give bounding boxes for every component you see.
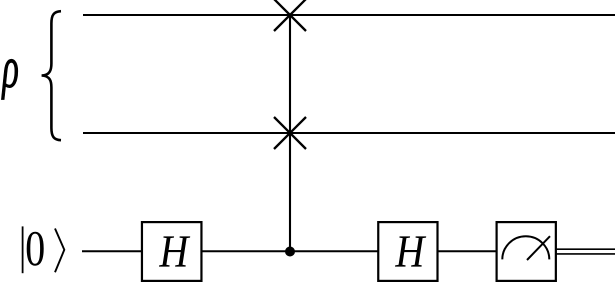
label rho <box>1 59 17 99</box>
H gate 2 box <box>378 222 437 281</box>
swap cross top <box>274 0 306 31</box>
wire qubit 3 segment c <box>438 250 497 252</box>
meter arc <box>502 236 549 259</box>
meter box <box>497 222 556 281</box>
wire qubit 1 <box>83 14 615 16</box>
control dot <box>285 247 295 257</box>
wire qubit 2 <box>83 132 615 134</box>
brace <box>42 11 61 140</box>
H gate 2 letter <box>395 236 426 266</box>
swap cross bottom <box>274 117 306 149</box>
meter needle <box>527 236 550 260</box>
vertical control line <box>289 15 291 252</box>
H gate 1 box <box>142 222 202 281</box>
H gate 1 letter <box>159 236 190 266</box>
wire qubit 3 segment a <box>82 250 142 252</box>
classical double wire <box>556 249 615 254</box>
ket |0> label <box>23 226 65 273</box>
wire qubit 3 segment b <box>201 250 378 252</box>
